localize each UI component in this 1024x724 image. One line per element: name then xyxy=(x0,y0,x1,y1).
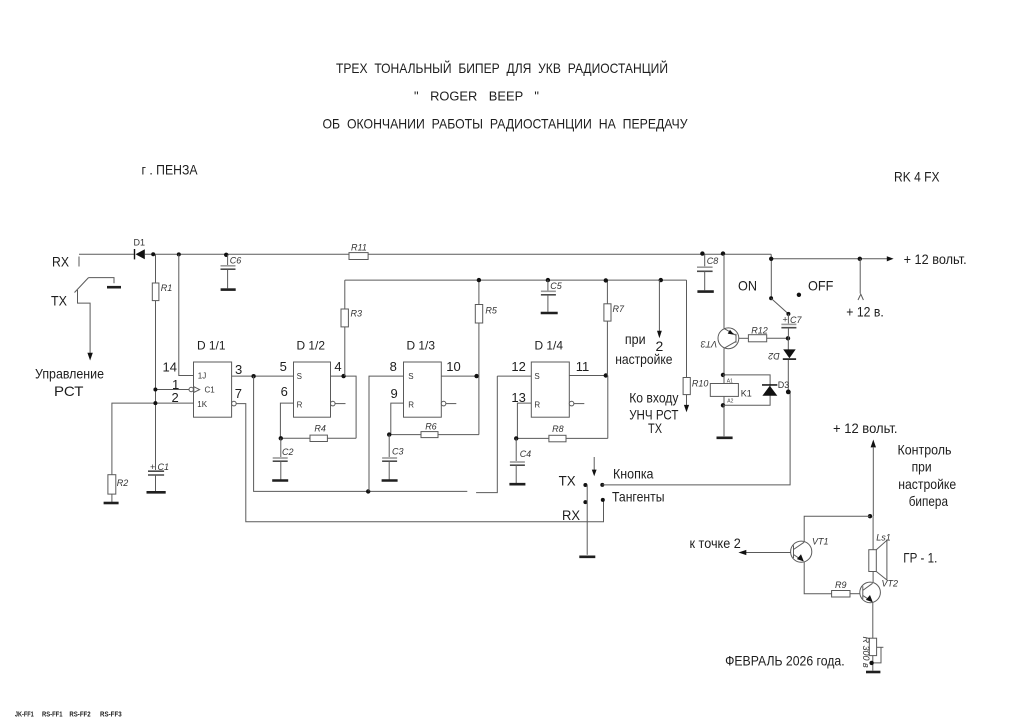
svg-text:настройке: настройке xyxy=(615,351,672,367)
resistor R9 xyxy=(832,580,860,597)
node junction bottom line xyxy=(366,489,370,493)
resistor R7 xyxy=(604,280,625,375)
node junction C6 tap xyxy=(224,253,228,257)
svg-text:ON: ON xyxy=(738,278,757,294)
svg-text:R: R xyxy=(297,400,303,409)
speaker Ls1 xyxy=(869,516,891,582)
flip-flop D1/2 xyxy=(294,339,331,418)
wire pin3 to pin5 xyxy=(232,375,294,377)
wire pin11 xyxy=(569,375,608,377)
svg-text:ТХ: ТХ xyxy=(648,420,663,436)
svg-text:ФЕВРАЛЬ 2026 года.: ФЕВРАЛЬ 2026 года. xyxy=(725,652,845,668)
wire pin13 xyxy=(517,403,531,438)
ground C2 xyxy=(272,479,288,482)
node junction R300 wiper xyxy=(869,661,873,665)
svg-text:C3: C3 xyxy=(392,446,404,456)
svg-text:РСТ: РСТ xyxy=(54,383,84,399)
arrow контроль up xyxy=(871,440,876,517)
node junction R1 tap xyxy=(151,252,155,256)
svg-text:Управление: Управление xyxy=(35,366,104,382)
wire pin3 down xyxy=(254,376,468,491)
svg-text:OFF: OFF xyxy=(808,278,833,294)
svg-text:D 1/4: D 1/4 xyxy=(535,339,564,353)
arrow PTT control xyxy=(87,353,92,361)
resistor R2 xyxy=(108,475,128,502)
wire TX common to ground xyxy=(586,485,588,555)
RX jack pin tick xyxy=(78,257,80,267)
wire TX to PTT arrow xyxy=(78,301,91,353)
svg-text:RX: RX xyxy=(52,254,70,270)
switch tangent contacts xyxy=(583,483,604,504)
svg-text:ТРЕХ ТОНАЛЬНЫЙ БИПЕР ДЛЯ УКВ Р: ТРЕХ ТОНАЛЬНЫЙ БИПЕР ДЛЯ УКВ РАДИОСТАНЦИ… xyxy=(336,59,668,76)
wire kick from pin7 line up контакт xyxy=(601,498,605,502)
wire pin10 xyxy=(441,375,479,377)
svg-text:+: + xyxy=(783,314,788,324)
resistor R5 xyxy=(475,280,498,435)
node junction R8 C4 xyxy=(514,436,518,440)
ground C4 xyxy=(509,483,525,486)
pin 7 bubble D1/2 stub xyxy=(331,401,336,406)
transistor VT3 xyxy=(701,328,749,349)
wire +12V rail middle xyxy=(145,253,771,255)
node junction D2 switch line xyxy=(786,390,791,395)
svg-text:+ 12 вольт.: + 12 вольт. xyxy=(833,420,898,436)
svg-text:A1: A1 xyxy=(727,378,733,384)
ground K1 xyxy=(717,436,733,439)
arrow к точке 2 xyxy=(738,550,790,555)
resistor R11 xyxy=(349,243,368,260)
flip-flop D1/4 xyxy=(531,339,569,418)
ground R2 xyxy=(104,502,119,505)
wire pin6 xyxy=(280,403,293,438)
svg-text:D 1/2: D 1/2 xyxy=(297,339,326,353)
diode D1 xyxy=(134,238,146,260)
svg-text:12: 12 xyxy=(511,359,525,374)
node junction C5 rail2 xyxy=(546,278,550,282)
svg-text:к точке 2: к точке 2 xyxy=(690,535,741,551)
svg-text:8: 8 xyxy=(390,359,397,374)
pin bubble D1/3 stub xyxy=(441,401,446,406)
svg-text:9: 9 xyxy=(391,386,398,401)
wire VT1 emitter to R9 xyxy=(804,562,831,594)
arrow tune point 2 xyxy=(657,280,662,338)
svg-text:S: S xyxy=(297,372,302,381)
svg-text:7: 7 xyxy=(235,386,242,401)
svg-text:C2: C2 xyxy=(282,447,294,457)
svg-text:R2: R2 xyxy=(117,478,129,488)
wire pin4 xyxy=(331,376,357,438)
svg-text:" ROGER BEEP ": " ROGER BEEP " xyxy=(414,89,539,104)
svg-text:14: 14 xyxy=(163,360,177,375)
svg-text:RS-FF1: RS-FF1 xyxy=(42,712,63,719)
svg-text:R: R xyxy=(408,400,414,409)
wire VT3 collector to relay xyxy=(721,373,725,377)
svg-text:C5: C5 xyxy=(550,281,562,291)
capacitor C3 xyxy=(382,435,403,480)
flip-flop D1/3 xyxy=(404,339,442,418)
svg-text:S: S xyxy=(408,372,413,381)
node junction pin1 xyxy=(153,388,157,392)
capacitor C6 xyxy=(221,255,242,288)
capacitor C8 xyxy=(697,251,718,290)
node junction VT3 emitter rail xyxy=(721,251,725,255)
svg-text:D 1/3: D 1/3 xyxy=(407,339,436,353)
svg-text:RS-FF2: RS-FF2 xyxy=(69,712,90,719)
svg-text:при: при xyxy=(912,459,932,475)
svg-text:R9: R9 xyxy=(835,580,847,590)
svg-text:R: R xyxy=(534,400,540,409)
svg-text:R8: R8 xyxy=(552,424,564,434)
resistor R10 xyxy=(683,378,708,406)
wire VT2 emitter down xyxy=(872,603,874,639)
node junction R5 rail2 xyxy=(477,278,481,282)
svg-text:TX: TX xyxy=(51,293,68,309)
node junction pin11 xyxy=(604,373,608,377)
arrow +12V right xyxy=(887,256,894,261)
ground C8 xyxy=(697,290,713,293)
node junction R4 C2 xyxy=(279,436,283,440)
svg-text:ОБ ОКОНЧАНИИ РАБОТЫ РАДИОСТАНЦ: ОБ ОКОНЧАНИИ РАБОТЫ РАДИОСТАНЦИИ НА ПЕРЕ… xyxy=(323,116,688,132)
wire pin9 xyxy=(391,403,404,435)
node junction pin10 xyxy=(474,374,478,378)
node junction R6 C3 xyxy=(387,432,391,436)
wire кнопка to D2 D3 node xyxy=(602,392,790,485)
wire tone rail 2 xyxy=(345,279,687,281)
pin bubble D1/4 stub xyxy=(569,401,574,406)
svg-text:D2: D2 xyxy=(768,351,780,361)
node junction pin4 xyxy=(341,374,345,378)
wire pin12 xyxy=(497,375,531,377)
relay K1 xyxy=(710,375,752,405)
svg-text:+ 12 вольт.: + 12 вольт. xyxy=(904,251,967,267)
node junction R12 D2 C7 xyxy=(786,336,790,340)
node junction probe xyxy=(858,257,862,261)
svg-text:VT2: VT2 xyxy=(882,579,899,589)
svg-text:ТХ: ТХ xyxy=(559,472,577,488)
node junction pin2 xyxy=(153,401,157,405)
flip-flop D1/1 xyxy=(189,339,232,418)
svg-text:ГР - 1.: ГР - 1. xyxy=(903,550,937,566)
svg-text:RX: RX xyxy=(562,507,581,523)
capacitor C1 xyxy=(148,462,169,491)
wire pin2 xyxy=(112,403,194,475)
svg-text:C4: C4 xyxy=(520,449,532,459)
TX jack switch xyxy=(75,278,122,301)
node Контроль при настройке бипера label xyxy=(898,442,957,509)
svg-text:10: 10 xyxy=(446,359,460,374)
ground C1 xyxy=(147,491,166,494)
svg-text:R7: R7 xyxy=(613,304,625,314)
svg-text:3: 3 xyxy=(235,362,242,377)
diode D3 xyxy=(762,380,789,396)
pin 7 bubble xyxy=(232,401,237,406)
svg-text:S: S xyxy=(534,372,539,381)
diode D2 xyxy=(768,338,796,391)
svg-text:R6: R6 xyxy=(425,421,437,431)
svg-text:бипера: бипера xyxy=(909,493,948,509)
svg-text:5: 5 xyxy=(280,359,287,374)
svg-text:RS-FF3: RS-FF3 xyxy=(100,712,122,719)
wire pin1 xyxy=(156,389,189,391)
transistor VT2 xyxy=(860,579,898,603)
svg-text:Контроль: Контроль xyxy=(898,442,952,458)
ground switch xyxy=(579,555,595,558)
wire pin14 xyxy=(179,254,194,375)
svg-text:D1: D1 xyxy=(134,238,146,248)
wire VT3 collector down xyxy=(723,348,725,375)
resistor R6 xyxy=(389,421,479,437)
wire rail2 down to R10 xyxy=(686,280,688,377)
svg-text:A2: A2 xyxy=(727,398,733,404)
svg-text:R11: R11 xyxy=(351,243,367,253)
node junction arrow rail2 xyxy=(659,278,663,282)
wire pin8 xyxy=(369,376,404,491)
svg-text:1K: 1K xyxy=(197,400,207,409)
svg-text:K1: K1 xyxy=(741,388,752,398)
svg-text:при: при xyxy=(625,331,646,347)
svg-text:Ко входу: Ко входу xyxy=(629,390,678,406)
svg-text:2: 2 xyxy=(172,390,179,405)
svg-text:+ 12 в.: + 12 в. xyxy=(846,303,884,319)
svg-text:R12: R12 xyxy=(751,325,768,335)
wire K1 to ground xyxy=(723,405,725,436)
svg-text:R4: R4 xyxy=(314,424,326,434)
node junction pin3 xyxy=(251,374,255,378)
svg-text:настройке: настройке xyxy=(898,476,956,492)
ground C3 xyxy=(382,479,398,482)
svg-text:11: 11 xyxy=(576,359,590,374)
ground C5 xyxy=(541,312,558,315)
transistor VT1 xyxy=(791,537,829,563)
wire +12V rail right jog xyxy=(771,254,887,259)
svg-text:4: 4 xyxy=(334,359,341,374)
svg-text:C8: C8 xyxy=(707,256,719,266)
svg-text:C6: C6 xyxy=(230,256,242,266)
svg-text:D3: D3 xyxy=(778,380,790,390)
svg-text:Ls1: Ls1 xyxy=(876,532,891,542)
svg-text:г . ПЕНЗА: г . ПЕНЗА xyxy=(142,162,199,178)
capacitor C4 xyxy=(510,438,531,483)
probe +12 в xyxy=(858,259,863,300)
node junction R7 rail2 xyxy=(604,278,608,282)
svg-text:JK-FF1: JK-FF1 xyxy=(15,712,34,719)
switch ON OFF xyxy=(769,259,801,316)
resistor R4 xyxy=(280,424,356,442)
node junction pin14 tap xyxy=(177,252,181,256)
wire +12V rail left xyxy=(79,253,134,255)
footer legend xyxy=(15,712,122,719)
svg-text:6: 6 xyxy=(281,384,288,399)
wire collector link xyxy=(804,516,870,542)
svg-text:VT3: VT3 xyxy=(701,339,718,349)
svg-text:Кнопка: Кнопка xyxy=(613,465,654,481)
arrow кнопка press xyxy=(592,457,597,476)
svg-text:C7: C7 xyxy=(790,315,802,325)
svg-text:R1: R1 xyxy=(161,283,173,293)
svg-text:VT1: VT1 xyxy=(812,537,829,547)
arrow to AF input xyxy=(684,405,689,412)
svg-text:R10: R10 xyxy=(692,379,709,389)
resistor R12 xyxy=(748,325,788,341)
svg-text:Тангенты: Тангенты xyxy=(612,488,665,504)
capacitor C7 xyxy=(781,314,802,338)
wire VT3 emitter up xyxy=(723,254,725,328)
resistor R300 trimmer xyxy=(861,637,883,671)
ground R300 xyxy=(866,671,880,674)
capacitor C2 xyxy=(273,438,294,479)
ground C6 xyxy=(221,288,236,291)
wire bottom segment to pin12 xyxy=(476,376,497,493)
capacitor C5 xyxy=(541,280,563,312)
resistor R3 xyxy=(341,280,362,376)
node label Ко входу УНЧ РСТ ТХ xyxy=(629,390,679,437)
svg-text:R5: R5 xyxy=(485,306,497,316)
svg-text:D 1/1: D 1/1 xyxy=(197,339,226,353)
node junction VT1 collector line xyxy=(868,514,872,518)
resistor R1 xyxy=(152,254,172,470)
svg-text:RK 4 FX: RK 4 FX xyxy=(894,169,940,185)
svg-text:R3: R3 xyxy=(351,309,363,319)
wire pin7 to RX contact xyxy=(236,404,603,522)
node junction ON switch xyxy=(769,257,773,261)
node junction K1 A2 xyxy=(721,403,725,407)
svg-text:C1: C1 xyxy=(205,386,216,395)
wire D3 loop xyxy=(723,375,770,405)
resistor R8 xyxy=(516,376,608,442)
svg-text:1J: 1J xyxy=(198,371,206,380)
